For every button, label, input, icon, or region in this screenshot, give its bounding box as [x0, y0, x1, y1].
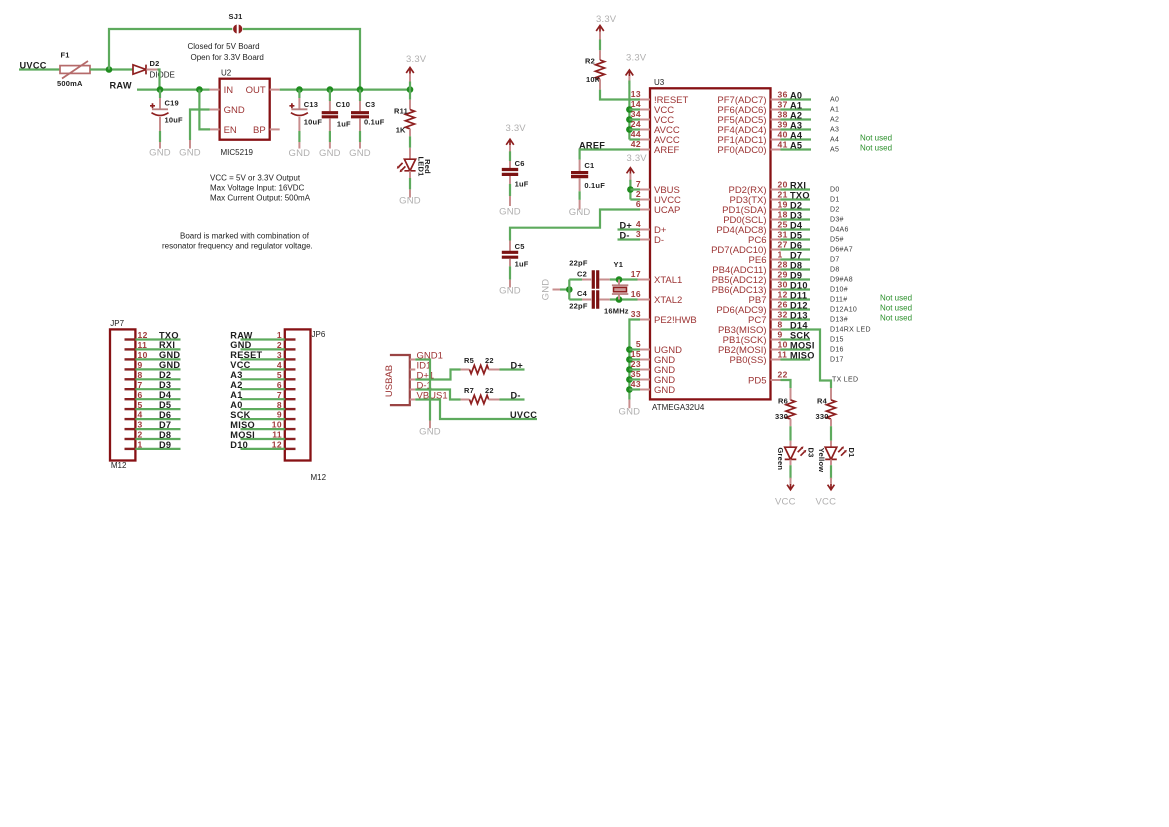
pin JP6 10 net MISO: [285, 428, 296, 430]
svg-text:44: 44: [631, 129, 641, 139]
svg-text:25: 25: [778, 220, 788, 230]
pin U3 PE6 (1) net D7: [771, 259, 781, 261]
pin USB D+1: [410, 379, 416, 381]
svg-text:3.3V: 3.3V: [626, 53, 647, 64]
svg-text:1uF: 1uF: [515, 180, 529, 189]
svg-text:11: 11: [272, 430, 282, 440]
svg-text:D2: D2: [159, 370, 171, 380]
svg-text:D5#: D5#: [830, 237, 844, 244]
pin U3 GND (43): [640, 389, 650, 391]
pin JP7 2 net D8: [125, 438, 136, 440]
junction XTAL2: [616, 296, 623, 303]
svg-text:14: 14: [631, 99, 641, 109]
wire U3 ground bus: [629, 320, 640, 400]
svg-text:22: 22: [485, 356, 494, 365]
svg-text:22pF: 22pF: [569, 259, 588, 268]
svg-text:36: 36: [778, 90, 788, 100]
svg-text:Green: Green: [776, 447, 785, 470]
svg-text:GND: GND: [159, 350, 180, 360]
pin U3 PF1(ADC1) (40) net A4: [771, 139, 781, 141]
svg-text:16: 16: [631, 289, 641, 299]
junction C2/C4: [566, 286, 573, 293]
svg-text:D12A10: D12A10: [830, 307, 857, 314]
svg-text:3: 3: [636, 229, 641, 239]
svg-text:D1: D1: [830, 197, 840, 204]
pin U3 PB0(SS) (11) net MISO: [771, 359, 781, 361]
svg-text:GND: GND: [569, 207, 591, 218]
pin D2 cathode: [146, 69, 157, 71]
junction XTAL1: [616, 276, 623, 283]
svg-text:UVCC: UVCC: [510, 410, 537, 420]
svg-text:D4: D4: [790, 221, 803, 231]
svg-text:PF0(ADC0): PF0(ADC0): [717, 145, 766, 156]
svg-text:D+: D+: [511, 361, 524, 371]
svg-text:D8: D8: [830, 267, 840, 274]
pin USB ID1: [410, 369, 416, 371]
pin U3 PD0(SCL) (18) net D3: [771, 219, 781, 221]
svg-text:26: 26: [778, 300, 788, 310]
svg-text:Open for 3.3V Board: Open for 3.3V Board: [191, 53, 264, 62]
svg-text:MIC5219: MIC5219: [221, 148, 254, 157]
svg-text:C6: C6: [515, 159, 525, 168]
svg-text:1: 1: [778, 250, 783, 260]
pin U3 D- (3): [640, 239, 650, 241]
pin U3 PF4(ADC4) (39) net A3: [771, 129, 781, 131]
svg-text:8: 8: [778, 320, 783, 330]
svg-text:40: 40: [778, 130, 788, 140]
svg-text:9: 9: [277, 410, 282, 420]
svg-text:5: 5: [636, 339, 641, 349]
wire net UCAP: [510, 210, 640, 241]
svg-text:D3: D3: [790, 211, 802, 221]
svg-text:JP6: JP6: [312, 330, 326, 339]
wire net 3.3V output rail: [280, 88, 410, 90]
pin JP6 3 net RESET: [285, 358, 296, 360]
svg-text:7: 7: [277, 390, 282, 400]
svg-text:A4: A4: [790, 131, 803, 141]
pin U3 PF0(ADC0) (41) net A5: [771, 149, 781, 151]
svg-text:10uF: 10uF: [165, 116, 184, 125]
svg-text:UVCC: UVCC: [20, 61, 47, 71]
power VCC (down arrow): [787, 484, 794, 490]
resistor R6: [790, 388, 792, 400]
svg-text:7: 7: [636, 179, 641, 189]
pin JP7 3 net D7: [125, 428, 136, 430]
svg-text:RXI: RXI: [790, 181, 806, 191]
pin U3 PF7(ADC7) (36) net A0: [771, 99, 781, 101]
solder jumper SJ1: [233, 25, 237, 34]
junction C10: [327, 86, 334, 93]
svg-text:A3: A3: [790, 121, 802, 131]
svg-text:D12: D12: [790, 301, 808, 311]
LED D3: [785, 447, 797, 459]
svg-text:Not used: Not used: [880, 313, 912, 322]
svg-text:27: 27: [778, 240, 788, 250]
junction VBUS: [627, 186, 634, 193]
pin U3 PC7 (32) net D13: [771, 319, 781, 321]
svg-text:JP7: JP7: [110, 319, 124, 328]
svg-text:22: 22: [778, 370, 788, 380]
svg-text:D16: D16: [830, 347, 844, 354]
pin U3 GND (23): [640, 369, 650, 371]
svg-text:VCC = 5V or 3.3V Output: VCC = 5V or 3.3V Output: [210, 173, 301, 182]
svg-text:3.3V: 3.3V: [506, 123, 527, 134]
svg-text:12: 12: [778, 290, 788, 300]
svg-text:D2: D2: [830, 207, 840, 214]
svg-text:D15: D15: [830, 337, 844, 344]
pin U3 !RESET (13): [640, 99, 650, 101]
svg-text:30: 30: [778, 280, 788, 290]
svg-text:4: 4: [636, 219, 641, 229]
svg-text:Red: Red: [423, 159, 432, 174]
svg-text:D6: D6: [790, 241, 802, 251]
svg-text:D13: D13: [790, 311, 808, 321]
capacitor C3: [359, 90, 361, 101]
pin USB D-1: [410, 389, 416, 391]
svg-text:39: 39: [778, 120, 788, 130]
svg-text:21: 21: [778, 190, 788, 200]
svg-text:D2: D2: [150, 59, 160, 68]
svg-text:D11: D11: [790, 291, 807, 301]
svg-text:10uF: 10uF: [304, 117, 323, 126]
pin JP6 6 net A2: [285, 388, 296, 390]
svg-text:6: 6: [138, 390, 143, 400]
svg-text:C19: C19: [165, 99, 179, 108]
svg-text:9: 9: [778, 330, 783, 340]
junction C3: [357, 86, 364, 93]
svg-text:16MHz: 16MHz: [604, 307, 629, 316]
wire R2 to !RESET: [600, 90, 640, 100]
junction GND bus: [626, 356, 633, 363]
pin U3 AVCC (44): [640, 139, 650, 141]
wire XTAL pins: [638, 280, 651, 300]
resistor R11: [409, 90, 411, 100]
svg-text:12: 12: [138, 330, 148, 340]
pin U3 PC6 (31) net D5: [771, 239, 781, 241]
svg-text:A4: A4: [830, 137, 839, 144]
svg-text:TX LED: TX LED: [832, 377, 858, 384]
wire D2 to RAW: [158, 70, 160, 90]
svg-text:5: 5: [277, 370, 282, 380]
svg-text:D1: D1: [847, 448, 856, 458]
svg-text:BP: BP: [253, 125, 266, 136]
junction VCC pin14: [626, 106, 633, 113]
pin U3 PD6(ADC9) (26) net D12: [771, 309, 781, 311]
pin U3 PF5(ADC5) (38) net A2: [771, 119, 781, 121]
svg-text:VCC: VCC: [230, 360, 250, 370]
svg-text:Board is marked with combinati: Board is marked with combination of: [180, 232, 310, 241]
svg-text:SCK: SCK: [230, 410, 250, 420]
svg-text:17: 17: [631, 269, 641, 279]
junction C13: [296, 86, 303, 93]
svg-text:7: 7: [138, 380, 143, 390]
svg-text:D3: D3: [159, 380, 171, 390]
capacitor C2: [569, 278, 582, 280]
svg-text:D6: D6: [159, 410, 171, 420]
svg-text:0.1uF: 0.1uF: [364, 117, 385, 126]
junction GND bus: [626, 346, 633, 353]
wire up to SJ1: [109, 29, 232, 70]
svg-text:32: 32: [778, 310, 788, 320]
svg-text:D2: D2: [790, 201, 802, 211]
svg-text:R11: R11: [394, 107, 408, 116]
junction RAW EN: [196, 86, 203, 93]
svg-text:D7: D7: [830, 257, 840, 264]
pin U3 PE2!HWB (33): [640, 319, 650, 321]
pin U2 IN: [210, 89, 220, 91]
pin JP7 1 net D9: [125, 448, 136, 450]
svg-text:D8: D8: [159, 430, 171, 440]
resistor R5: [461, 369, 470, 371]
svg-text:C5: C5: [515, 242, 525, 251]
svg-text:9: 9: [138, 360, 143, 370]
pin U3 PB5(ADC12) (29) net D9: [771, 279, 781, 281]
svg-text:SCK: SCK: [790, 331, 810, 341]
svg-text:Max Voltage Input: 16VDC: Max Voltage Input: 16VDC: [210, 183, 305, 192]
svg-text:10: 10: [138, 350, 148, 360]
svg-text:Not used: Not used: [880, 293, 912, 302]
svg-text:A0: A0: [230, 400, 242, 410]
pin U3 XTAL2 (16): [640, 299, 650, 301]
svg-text:GND: GND: [499, 286, 521, 297]
power VCC (down arrow): [828, 484, 835, 490]
svg-text:24: 24: [631, 119, 641, 129]
wire VBUS/UVCC branches: [630, 190, 640, 200]
svg-text:D17: D17: [830, 357, 844, 364]
svg-text:ATMEGA32U4: ATMEGA32U4: [652, 403, 705, 412]
wire U2 GND to ground: [190, 110, 210, 141]
pin U3 PD2(RX) (20) net RXI: [771, 189, 781, 191]
svg-text:37: 37: [778, 100, 788, 110]
resistor R7: [461, 399, 470, 401]
pin U3 PF6(ADC6) (37) net A1: [771, 109, 781, 111]
svg-text:GND: GND: [230, 340, 251, 350]
svg-text:D11#: D11#: [830, 297, 847, 304]
svg-text:1: 1: [277, 330, 282, 340]
svg-text:U3: U3: [654, 78, 665, 87]
svg-text:UCAP: UCAP: [654, 205, 680, 216]
svg-text:GND: GND: [319, 148, 341, 159]
svg-text:OUT: OUT: [246, 85, 266, 96]
pin U3 AREF (42): [640, 149, 650, 151]
svg-text:4: 4: [277, 360, 282, 370]
svg-text:3.3V: 3.3V: [406, 54, 427, 65]
pin U3 PD7(ADC10) (27) net D6: [771, 249, 781, 251]
pin U3 VCC (34): [640, 119, 650, 121]
svg-text:R6: R6: [778, 397, 788, 406]
pin JP7 5 net D5: [125, 408, 136, 410]
svg-text:GND: GND: [619, 407, 641, 418]
svg-text:C1: C1: [584, 161, 594, 170]
svg-text:C2: C2: [577, 270, 587, 279]
svg-text:8: 8: [277, 400, 282, 410]
svg-text:MOSI: MOSI: [230, 430, 255, 440]
pin U3 GND (15): [640, 359, 650, 361]
svg-text:330: 330: [775, 412, 788, 421]
pin U2 OUT: [270, 89, 280, 91]
pin U3 VBUS (7): [640, 189, 650, 191]
svg-text:RAW: RAW: [230, 330, 252, 340]
svg-text:D3#: D3#: [830, 217, 844, 224]
svg-text:SJ1: SJ1: [229, 12, 243, 21]
svg-text:GND: GND: [399, 196, 421, 207]
svg-text:18: 18: [778, 210, 788, 220]
capacitor C10: [329, 90, 331, 101]
pin JP7 9 net GND: [125, 368, 136, 370]
svg-text:0.1uF: 0.1uF: [584, 181, 605, 190]
pin JP7 7 net D3: [125, 388, 136, 390]
svg-text:41: 41: [778, 140, 788, 150]
svg-text:Not used: Not used: [860, 143, 892, 152]
pin USB GND1: [410, 359, 416, 361]
pin JP7 4 net D6: [125, 418, 136, 420]
svg-text:VCC: VCC: [816, 496, 837, 507]
pin JP6 12 net D10: [285, 448, 296, 450]
svg-text:Max Current Output: 500mA: Max Current Output: 500mA: [210, 193, 311, 202]
svg-text:RXI: RXI: [159, 340, 175, 350]
svg-text:D4A6: D4A6: [830, 227, 849, 234]
svg-text:PE2!HWB: PE2!HWB: [654, 315, 697, 326]
svg-text:11: 11: [778, 350, 788, 360]
pin JP6 4 net VCC: [285, 368, 296, 370]
svg-text:3.3V: 3.3V: [596, 14, 617, 25]
pin USB VBUS1: [410, 399, 416, 401]
svg-text:A0: A0: [790, 91, 802, 101]
svg-text:13: 13: [631, 89, 641, 99]
junction GND bus: [626, 386, 633, 393]
svg-text:33: 33: [631, 309, 641, 319]
pin U3 PB2(MOSI) (10) net MOSI: [771, 349, 781, 351]
svg-text:R4: R4: [817, 397, 828, 406]
svg-text:C3: C3: [365, 100, 375, 109]
svg-text:31: 31: [778, 230, 788, 240]
svg-text:A3: A3: [230, 370, 242, 380]
junction VCC pin34: [626, 116, 633, 123]
svg-text:D4: D4: [159, 390, 172, 400]
pin U3 PB3(MISO) (8) net D14: [771, 329, 781, 331]
svg-text:6: 6: [277, 380, 282, 390]
pin U2 GND: [210, 109, 220, 111]
capacitor C5: [509, 241, 511, 251]
svg-text:XTAL1: XTAL1: [654, 275, 682, 286]
svg-text:D0: D0: [830, 187, 840, 194]
LED LED1: [404, 159, 415, 171]
svg-text:DIODE: DIODE: [150, 71, 175, 80]
svg-text:Closed for 5V Board: Closed for 5V Board: [188, 42, 260, 51]
resistor R2: [599, 50, 601, 60]
wire VCC branches: [629, 110, 640, 140]
svg-text:19: 19: [778, 200, 788, 210]
svg-text:GND: GND: [499, 207, 521, 218]
svg-text:28: 28: [778, 260, 788, 270]
capacitor C19: [159, 90, 161, 98]
svg-text:R5: R5: [464, 356, 474, 365]
LED D1: [825, 447, 837, 459]
pin U3 PB6(ADC13) (30) net D10: [771, 289, 781, 291]
svg-text:PD5: PD5: [748, 375, 766, 386]
svg-text:Y1: Y1: [614, 260, 624, 269]
wire RAW to EN: [199, 90, 210, 130]
pin U3 GND (35): [640, 379, 650, 381]
svg-text:GND: GND: [179, 148, 201, 159]
svg-text:A0: A0: [830, 97, 839, 104]
wire SJ1 to 3.3V rail: [243, 29, 360, 90]
svg-text:1uF: 1uF: [515, 260, 529, 269]
svg-text:GND: GND: [654, 385, 675, 396]
svg-text:PB0(SS): PB0(SS): [730, 355, 767, 366]
svg-text:1K: 1K: [396, 125, 406, 134]
svg-text:29: 29: [778, 270, 788, 280]
capacitor C1: [579, 160, 581, 171]
svg-text:20: 20: [778, 180, 788, 190]
svg-text:USBAB: USBAB: [384, 365, 395, 397]
pin JP6 5 net A3: [285, 378, 296, 380]
svg-text:42: 42: [631, 139, 641, 149]
pin JP6 11 net MOSI: [285, 438, 296, 440]
svg-text:EN: EN: [224, 125, 237, 136]
svg-text:5: 5: [138, 400, 143, 410]
pin U3 PD5 (22): [771, 379, 781, 381]
connector JP6: [285, 329, 311, 460]
svg-text:resonator frequency and regula: resonator frequency and regulator voltag…: [162, 242, 313, 251]
junction UVCC/SJ1: [106, 66, 113, 73]
svg-text:GND: GND: [419, 427, 441, 438]
pin crystal gnd: [553, 289, 561, 291]
wire F1 to D2: [90, 68, 133, 70]
pin U3 PB1(SCK) (9) net SCK: [771, 339, 781, 341]
svg-text:4: 4: [138, 410, 143, 420]
svg-text:D5: D5: [790, 231, 802, 241]
pin JP7 8 net D2: [125, 378, 136, 380]
wire D+1 to R5: [415, 370, 460, 380]
svg-text:U2: U2: [221, 69, 232, 78]
IC U2 regulator MIC5219: [220, 79, 270, 140]
svg-text:D6#A7: D6#A7: [830, 247, 853, 254]
svg-text:D-: D-: [511, 391, 521, 401]
pin U3 UVCC (2): [640, 199, 650, 201]
svg-text:GND: GND: [349, 148, 371, 159]
pin U3 PD4(ADC8) (25) net D4: [771, 229, 781, 231]
wire net UVCC: [19, 68, 60, 70]
svg-text:GND: GND: [159, 360, 180, 370]
wire net D+ (usb): [500, 368, 525, 370]
svg-text:1: 1: [138, 440, 143, 450]
svg-text:1uF: 1uF: [337, 120, 351, 129]
pin U2 BP: [270, 128, 280, 130]
svg-text:D5: D5: [159, 400, 171, 410]
svg-text:8: 8: [138, 370, 143, 380]
svg-text:M12: M12: [111, 461, 127, 470]
pin JP7 12 net TXO: [125, 338, 136, 340]
svg-text:D9#A8: D9#A8: [830, 277, 853, 284]
svg-text:22pF: 22pF: [569, 302, 588, 311]
connector USBAB: [390, 355, 410, 405]
junction AVCC pin24: [626, 126, 633, 133]
svg-text:A2: A2: [230, 380, 242, 390]
pin U3 AVCC (24): [640, 129, 650, 131]
resistor R4: [830, 388, 832, 400]
svg-text:2: 2: [277, 340, 282, 350]
pin C19 bottom: [159, 117, 161, 131]
pin JP6 7 net A1: [285, 398, 296, 400]
svg-text:RESET: RESET: [230, 350, 262, 360]
svg-text:10: 10: [272, 420, 282, 430]
svg-text:500mA: 500mA: [57, 79, 83, 88]
svg-text:GND: GND: [289, 148, 311, 159]
svg-text:2: 2: [138, 430, 143, 440]
pin JP7 10 net GND: [125, 358, 136, 360]
svg-text:Not used: Not used: [860, 133, 892, 142]
